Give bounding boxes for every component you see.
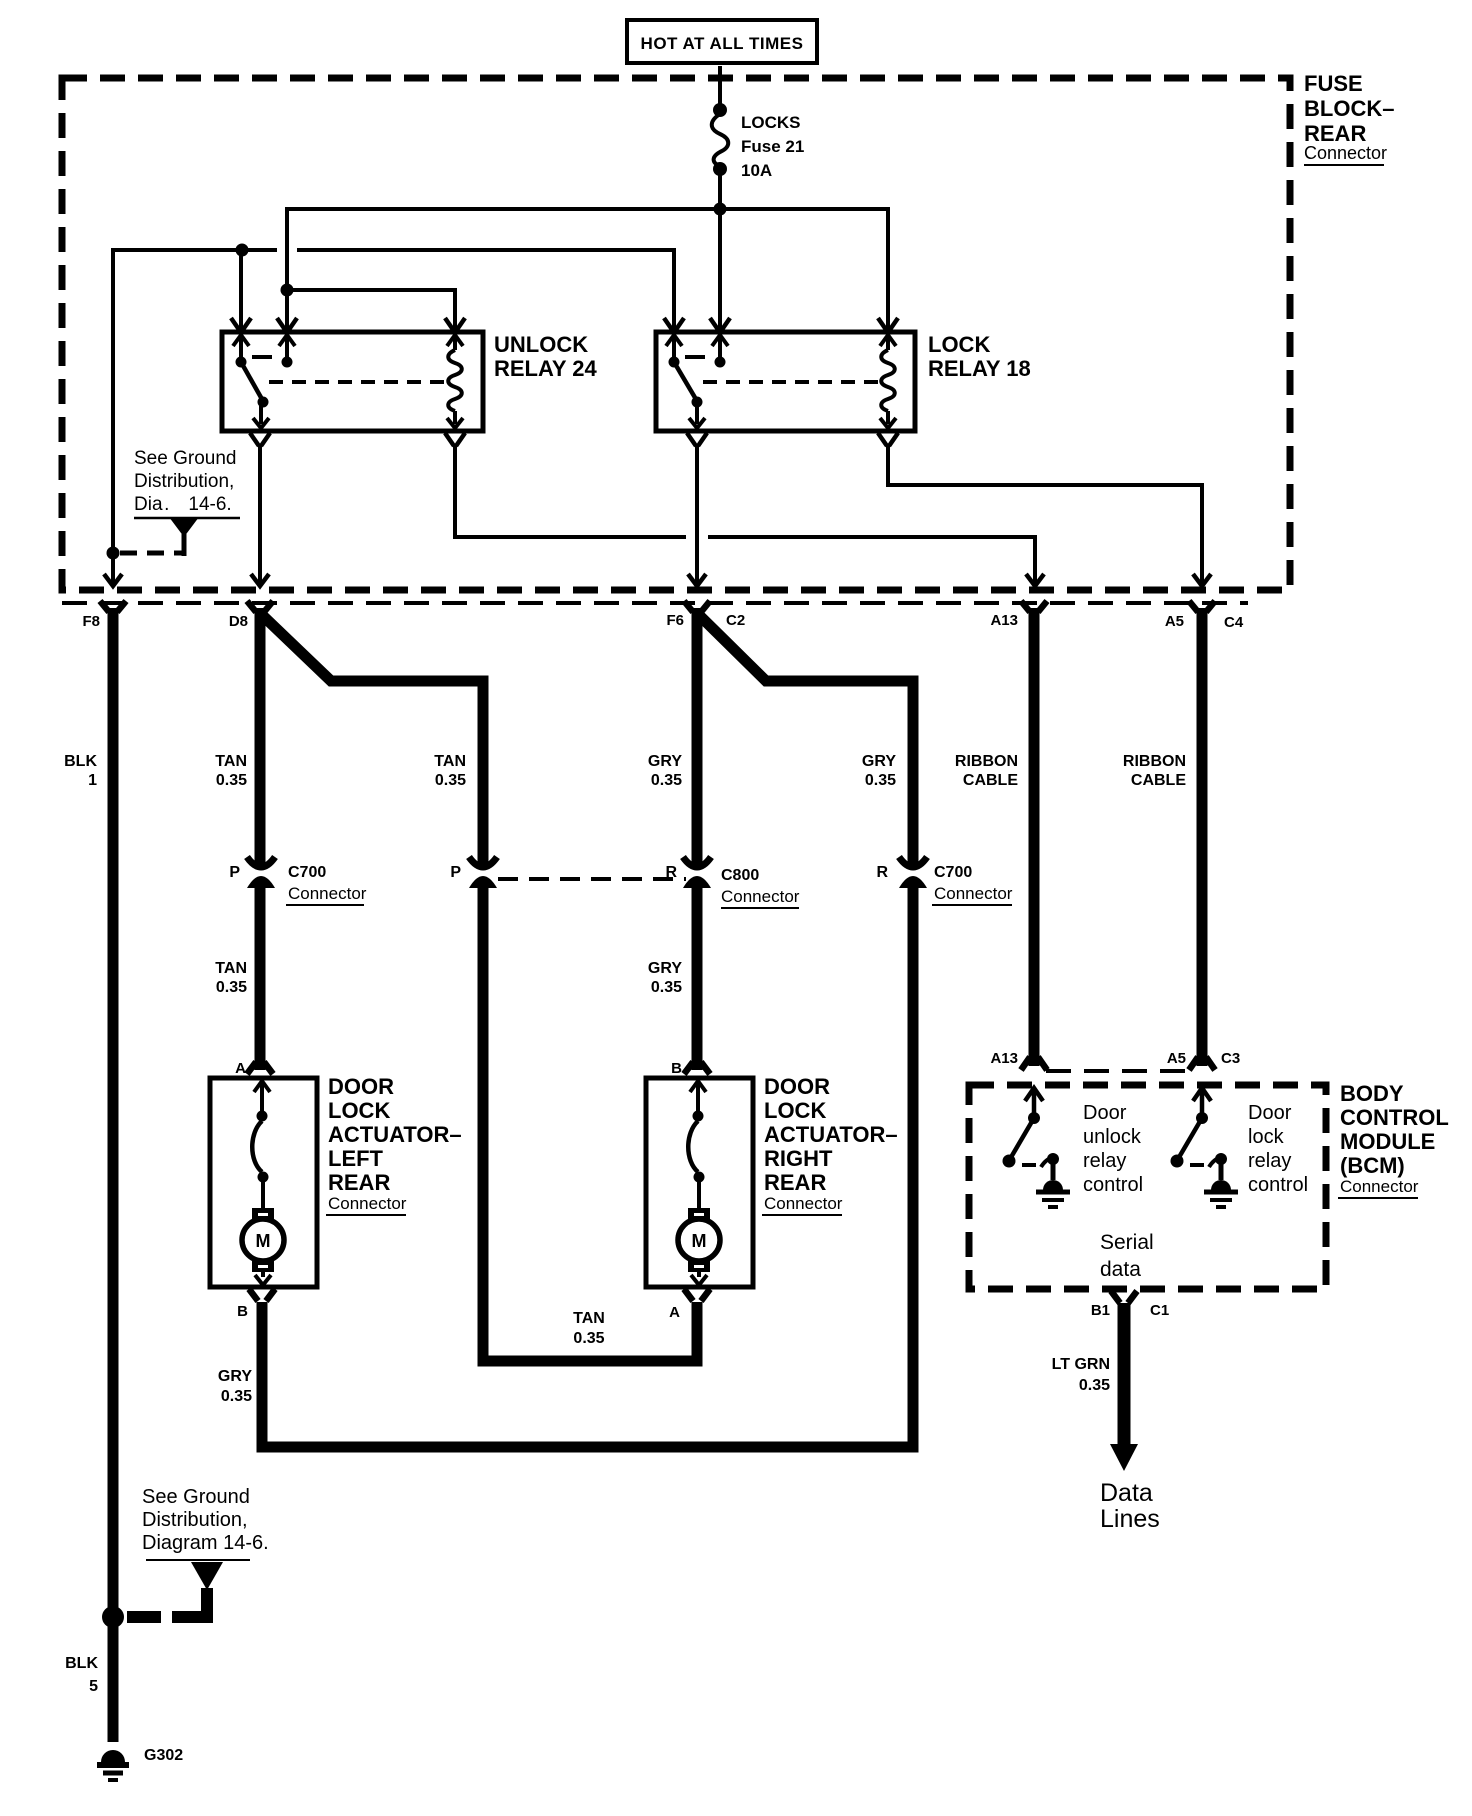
svg-text:Connector: Connector [1304, 143, 1387, 163]
svg-text:Door: Door [1248, 1102, 1292, 1124]
wire GRY branch diagonal C2 to x=913 [697, 613, 913, 865]
svg-text:B: B [237, 1303, 248, 1320]
svg-text:GRY: GRY [862, 753, 896, 770]
svg-text:A5: A5 [1165, 613, 1184, 630]
wire fuse output to junction [718, 174, 722, 209]
svg-text:A13: A13 [990, 1050, 1018, 1067]
label DOOR LOCK ACTUATOR-RIGHT REAR Connector [762, 1074, 898, 1215]
pin arrow inside unlock relay bottom (switch out) [253, 403, 269, 428]
node junction on x=287 branch [281, 284, 294, 297]
svg-text:CABLE: CABLE [1131, 772, 1186, 789]
arrowhead at A5/C4 exit [1193, 574, 1211, 586]
connector F6/C2 chevron [684, 601, 710, 612]
linkage dashed unlock relay [269, 380, 449, 384]
wire GRY run x=913 down and across to left actuator B [262, 884, 913, 1447]
wire fuse junction down to lock relay pin [718, 209, 722, 331]
svg-text:TAN: TAN [434, 753, 466, 770]
wire bus y=209 [287, 209, 888, 331]
svg-text:GRY: GRY [218, 1368, 252, 1385]
pin chevrons above unlock relay [231, 318, 251, 331]
svg-text:C700: C700 [934, 864, 972, 881]
svg-text:BODY: BODY [1340, 1081, 1404, 1106]
svg-text:0.35: 0.35 [573, 1330, 604, 1347]
svg-text:CABLE: CABLE [963, 772, 1018, 789]
wire bus y=250 (left segment with crossover break) [113, 250, 277, 584]
BCM connector row dashed line [1046, 1069, 1190, 1073]
svg-text:GRY: GRY [648, 753, 682, 770]
arrowhead to Data Lines [1110, 1444, 1138, 1471]
label R / C700 Connector (right) [876, 864, 1012, 905]
svg-text:data: data [1100, 1258, 1141, 1281]
connector chevron below right actuator A [684, 1289, 710, 1301]
connector fishtail A13 at BCM top [1021, 1057, 1047, 1070]
svg-text:0.35: 0.35 [651, 979, 682, 996]
svg-text:Connector: Connector [1340, 1177, 1419, 1196]
switch unlock relay [236, 357, 247, 368]
arrowhead at F6/C2 exit [688, 574, 706, 586]
svg-text:(BCM): (BCM) [1340, 1153, 1405, 1178]
svg-text:Data: Data [1100, 1479, 1153, 1507]
svg-text:Distribution,: Distribution, [134, 471, 234, 492]
label GRY 0.35 (lower) [648, 960, 682, 996]
svg-text:C4: C4 [1224, 614, 1244, 631]
svg-text:LOCK: LOCK [764, 1098, 826, 1123]
svg-text:C700: C700 [288, 864, 326, 881]
svg-text:0.35: 0.35 [1079, 1377, 1110, 1394]
svg-text:0.35: 0.35 [435, 772, 466, 789]
svg-text:RIBBON: RIBBON [955, 753, 1018, 770]
motor M [688, 1208, 710, 1220]
svg-text:unlock: unlock [1083, 1126, 1142, 1148]
label Serial data [1100, 1231, 1154, 1281]
connector chevron below left actuator B [249, 1289, 275, 1301]
wire lock relay switch out to F6 [695, 445, 699, 584]
svg-text:Lines: Lines [1100, 1505, 1160, 1533]
connector fishtail A5/C3 at BCM top [1189, 1057, 1215, 1070]
connector row dashed line (fuse block bottom) [62, 601, 1248, 605]
relay LOCK RELAY 18 [656, 318, 1031, 446]
label Data Lines [1100, 1479, 1160, 1533]
svg-text:ACTUATOR–: ACTUATOR– [764, 1122, 898, 1147]
label TAN 0.35 (lower left) [215, 960, 247, 996]
wire GRY 0.35 below C800 to right actuator B [692, 884, 703, 1070]
svg-text:Door: Door [1083, 1102, 1127, 1124]
label RIBBON CABLE (left) [955, 753, 1018, 789]
svg-text:10A: 10A [741, 161, 772, 180]
pin arrows inside lock relay top [666, 335, 682, 357]
svg-text:BLK: BLK [65, 1655, 98, 1672]
svg-text:R: R [876, 864, 888, 881]
connector chevron below BCM B1/C1 [1111, 1291, 1137, 1303]
svg-text:LT GRN: LT GRN [1052, 1356, 1110, 1373]
switch door unlock relay control [1003, 1088, 1071, 1207]
ground reference branch (bottom) [127, 1562, 223, 1617]
switch lock relay [669, 357, 680, 368]
svg-text:B: B [671, 1060, 682, 1077]
svg-text:Dia . 14-6.: Dia . 14-6. [134, 494, 232, 515]
svg-text:1: 1 [88, 772, 97, 789]
svg-text:M: M [256, 1231, 271, 1251]
label Door unlock relay control [1083, 1102, 1143, 1196]
wire unlock relay switch out to D8 [258, 445, 262, 584]
svg-text:P: P [450, 864, 461, 881]
label FUSE BLOCK-REAR Connector [1304, 71, 1394, 165]
label BLK 1 [64, 753, 97, 789]
svg-text:DOOR: DOOR [764, 1074, 830, 1099]
label GRY 0.35 (bottom left) [218, 1368, 252, 1405]
svg-text:A5: A5 [1167, 1050, 1186, 1067]
svg-text:Distribution,: Distribution, [142, 1509, 248, 1531]
wire down to unlock relay pin1 [239, 250, 243, 331]
linkage dashed lock relay [703, 380, 882, 384]
pin arrow inside lock relay bottom (switch out) [689, 403, 705, 428]
label See Ground Distribution Diagram 14-6 [142, 1486, 269, 1560]
connector C700 R inline symbol (right) [899, 857, 927, 888]
wire branch y=290 to unlock coil [287, 290, 455, 331]
pin arrows inside unlock relay top [233, 335, 249, 357]
svg-text:LOCKS: LOCKS [741, 113, 801, 132]
svg-text:TAN: TAN [215, 960, 247, 977]
wire TAN run x=483 down and across to right actuator A [483, 884, 697, 1361]
svg-text:D8: D8 [229, 613, 248, 630]
pin labels at fuse block bottom [82, 612, 1243, 631]
svg-text:F6: F6 [666, 612, 684, 629]
svg-text:Diagram 14-6.: Diagram 14-6. [142, 1532, 269, 1554]
svg-text:HOT AT ALL TIMES: HOT AT ALL TIMES [641, 34, 804, 53]
label TAN 0.35 (center bottom) [573, 1310, 605, 1347]
svg-text:B1: B1 [1091, 1302, 1110, 1319]
pin A arrow inside bottom [691, 1271, 707, 1285]
svg-text:RELAY 24: RELAY 24 [494, 356, 597, 381]
coil lock relay [881, 350, 895, 411]
arrowhead at A13 exit [1026, 574, 1044, 586]
svg-text:C800: C800 [721, 867, 759, 884]
svg-text:C1: C1 [1150, 1302, 1169, 1319]
module BODY CONTROL MODULE (BCM) dashed box [969, 1085, 1326, 1289]
wire bus y=250 (right segment) [297, 250, 674, 331]
svg-text:Serial: Serial [1100, 1231, 1154, 1254]
svg-text:LOCK: LOCK [328, 1098, 390, 1123]
label Door lock relay control [1248, 1102, 1308, 1196]
wire dashed between P and R connectors [498, 877, 686, 881]
svg-text:F8: F8 [82, 613, 100, 630]
svg-text:LOCK: LOCK [928, 332, 990, 357]
label GRY 0.35 (left) [648, 753, 682, 789]
svg-text:TAN: TAN [573, 1310, 605, 1327]
svg-text:TAN: TAN [215, 753, 247, 770]
fuse block FUSE BLOCK-REAR dashed border [62, 78, 1290, 590]
wire TAN branch diagonal D8 to x=483 [260, 613, 483, 865]
node junction at fuse output [714, 203, 727, 216]
svg-text:LEFT: LEFT [328, 1146, 384, 1171]
wire TAN 0.35 below C700 to left actuator A [255, 884, 266, 1070]
svg-text:lock: lock [1248, 1126, 1285, 1148]
pin chevrons below lock relay [687, 433, 707, 446]
wire lock relay coil out to C4 [888, 445, 1202, 584]
connector F8 chevron [100, 601, 126, 612]
svg-text:BLK: BLK [64, 753, 97, 770]
connector C800 R inline symbol [683, 857, 711, 888]
node junction at x=242 [236, 244, 249, 257]
svg-text:relay: relay [1083, 1150, 1126, 1172]
arrowhead at D8 exit [251, 574, 269, 586]
svg-text:Connector: Connector [328, 1194, 407, 1213]
svg-text:M: M [692, 1231, 707, 1251]
motor M [252, 1208, 274, 1220]
actuator DOOR LOCK ACTUATOR-RIGHT REAR [646, 1078, 753, 1287]
label LT GRN 0.35 [1052, 1356, 1110, 1394]
pin B arrow inside top [690, 1081, 706, 1111]
svg-text:R: R [665, 864, 677, 881]
svg-text:MODULE: MODULE [1340, 1129, 1435, 1154]
svg-text:REAR: REAR [764, 1170, 826, 1195]
label TAN 0.35 (right branch) [434, 753, 466, 789]
label BLK 5 [65, 1655, 98, 1695]
pin A arrow inside top [254, 1081, 270, 1111]
label B1 / C1 [1091, 1302, 1169, 1319]
svg-text:0.35: 0.35 [865, 772, 896, 789]
svg-text:REAR: REAR [328, 1170, 390, 1195]
svg-text:DOOR: DOOR [328, 1074, 394, 1099]
pin chevrons below unlock relay [250, 433, 270, 446]
actuator DOOR LOCK ACTUATOR-LEFT REAR [210, 1078, 317, 1287]
svg-text:0.35: 0.35 [216, 979, 247, 996]
svg-text:ACTUATOR–: ACTUATOR– [328, 1122, 462, 1147]
svg-text:0.35: 0.35 [651, 772, 682, 789]
switch door lock relay control [1171, 1088, 1239, 1207]
svg-text:0.35: 0.35 [216, 772, 247, 789]
wire GRY 0.35 from F6/C2 straight down to C800 [692, 608, 703, 865]
label RIBBON CABLE (right) [1123, 753, 1186, 789]
svg-text:P: P [229, 864, 240, 881]
label R / C800 Connector [665, 864, 799, 908]
svg-text:CONTROL: CONTROL [1340, 1105, 1449, 1130]
wire unlock relay coil out to A13 (with crossover break at x=697) [455, 445, 686, 537]
svg-text:See Ground: See Ground [134, 448, 236, 469]
node HOT AT ALL TIMES box [627, 20, 817, 63]
label BODY CONTROL MODULE (BCM) Connector [1338, 1081, 1449, 1198]
svg-text:Connector: Connector [288, 884, 367, 903]
svg-text:Connector: Connector [934, 884, 1013, 903]
svg-text:RELAY 18: RELAY 18 [928, 356, 1031, 381]
svg-text:C2: C2 [726, 612, 745, 629]
svg-text:5: 5 [89, 1678, 98, 1695]
wire RIBBON CABLE A13 down to BCM [1029, 608, 1040, 1066]
switch arc blade [688, 1121, 698, 1172]
ground reference branch (top, See Ground Distribution Dia 14-6) [107, 517, 200, 560]
coil unlock relay [448, 350, 462, 411]
label GRY 0.35 (right branch) [862, 753, 896, 789]
node junction BLK to ground branch [102, 1606, 124, 1628]
svg-text:C3: C3 [1221, 1050, 1240, 1067]
svg-text:BLOCK–: BLOCK– [1304, 96, 1394, 121]
wire RIBBON CABLE A5/C4 down to BCM [1197, 608, 1208, 1066]
svg-text:relay: relay [1248, 1150, 1291, 1172]
wire BLK 1 (F8 to ground) [108, 608, 119, 1742]
connector P inline symbol (second) [469, 857, 497, 888]
connector C700 P inline symbol [247, 857, 275, 888]
svg-text:RIBBON: RIBBON [1123, 753, 1186, 770]
svg-text:FUSE: FUSE [1304, 71, 1363, 96]
svg-text:control: control [1083, 1174, 1143, 1196]
wire LT GRN 0.35 serial data [1118, 1303, 1131, 1446]
label DOOR LOCK ACTUATOR-LEFT REAR Connector [326, 1074, 462, 1215]
wire TAN 0.35 from D8 straight down to C700 [255, 608, 266, 865]
svg-text:Connector: Connector [764, 1194, 843, 1213]
arrowhead at F8 exit [104, 574, 122, 586]
svg-text:Connector: Connector [721, 887, 800, 906]
svg-text:0.35: 0.35 [221, 1388, 252, 1405]
connector D8 chevron [247, 601, 273, 612]
label See Ground Distribution Dia 14-6 [134, 448, 240, 518]
svg-text:A: A [235, 1060, 246, 1077]
relay UNLOCK RELAY 24 [222, 318, 597, 446]
svg-text:UNLOCK: UNLOCK [494, 332, 588, 357]
svg-text:A: A [669, 1304, 680, 1321]
svg-text:G302: G302 [144, 1747, 183, 1764]
connector chevron into right actuator B (top) [684, 1062, 710, 1074]
wire from HOT to fuse [718, 66, 722, 105]
svg-text:control: control [1248, 1174, 1308, 1196]
pin B arrow inside bottom [255, 1271, 271, 1285]
ground G302 [97, 1750, 129, 1780]
svg-text:Fuse 21: Fuse 21 [741, 137, 804, 156]
svg-text:GRY: GRY [648, 960, 682, 977]
switch arc blade [252, 1121, 262, 1172]
svg-text:RIGHT: RIGHT [764, 1146, 833, 1171]
label P / C700 Connector [229, 864, 366, 905]
connector chevron into left actuator A (top) [247, 1062, 273, 1074]
label TAN 0.35 (left) [215, 753, 247, 789]
svg-text:A13: A13 [990, 612, 1018, 629]
svg-text:See Ground: See Ground [142, 1486, 250, 1508]
pin chevrons above lock relay [664, 318, 684, 331]
fuse LOCKS Fuse 21 10A [712, 103, 805, 180]
connector A5/C4 chevron [1189, 601, 1215, 612]
connector A13 chevron [1021, 601, 1047, 612]
